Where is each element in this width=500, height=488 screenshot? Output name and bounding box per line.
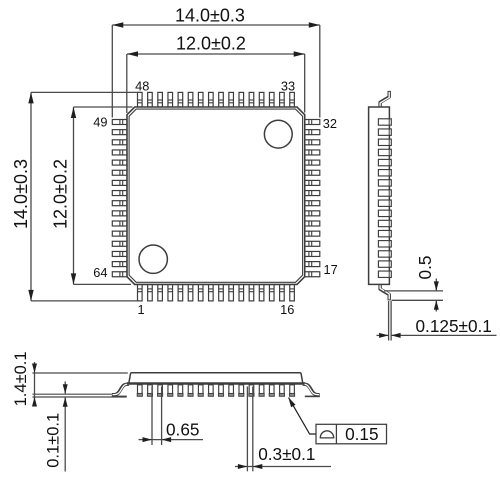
dimension 12.0±0.2 horizontal (body width) bbox=[127, 53, 305, 55]
svg-text:12.0±0.2: 12.0±0.2 bbox=[50, 159, 70, 229]
bottom pin row (pins 1-16) bbox=[138, 284, 143, 301]
bottom view left gull-wing lead bbox=[112, 384, 129, 395]
svg-text:48: 48 bbox=[135, 78, 149, 93]
svg-text:0.3±0.1: 0.3±0.1 bbox=[258, 444, 315, 464]
bottom view molded body bbox=[129, 373, 303, 384]
side view bottom gull-wing lead bbox=[380, 283, 389, 300]
dimension 1.4±0.1 (package height) bbox=[32, 372, 127, 374]
dimension 0.5 (lead foot length, side view) bbox=[384, 290, 443, 292]
dimension 12.0±0.2 vertical (body height) bbox=[73, 107, 75, 284]
bottom view right lead foot contact line bbox=[305, 395, 320, 397]
dimension 14.0±0.3 vertical (overall height) bbox=[30, 92, 32, 301]
bottom view left lead foot contact line bbox=[112, 395, 127, 397]
svg-text:1: 1 bbox=[137, 302, 144, 317]
svg-text:14.0±0.3: 14.0±0.3 bbox=[11, 159, 31, 229]
pin 33 index circle (top-right) bbox=[264, 120, 292, 148]
bottom view right gull-wing lead bbox=[303, 384, 320, 395]
coplanarity leader arrow bbox=[289, 398, 317, 434]
dimension 0.125±0.1 (lead thickness) bbox=[388, 301, 390, 341]
side view package body slab bbox=[369, 107, 390, 284]
svg-text:16: 16 bbox=[280, 302, 294, 317]
svg-text:17: 17 bbox=[324, 262, 338, 277]
bottom view lead exit band bbox=[127, 382, 305, 385]
svg-text:49: 49 bbox=[93, 115, 107, 130]
top pin row (pins 48-33) bbox=[138, 92, 143, 107]
dimension 0.1±0.1 (standoff) bbox=[32, 393, 111, 395]
side view top gull-wing lead bbox=[380, 91, 389, 109]
dimension 0.65 (lead pitch) bbox=[151, 387, 153, 446]
svg-text:33: 33 bbox=[281, 78, 295, 93]
svg-text:0.15: 0.15 bbox=[345, 424, 378, 444]
seating plane dome symbol bbox=[320, 431, 333, 438]
dimension 0.3±0.1 (lead width) bbox=[246, 387, 248, 472]
package body outer outline bbox=[127, 107, 305, 284]
svg-text:0.125±0.1: 0.125±0.1 bbox=[416, 316, 492, 336]
svg-text:14.0±0.3: 14.0±0.3 bbox=[175, 6, 245, 26]
svg-text:0.65: 0.65 bbox=[166, 420, 199, 440]
svg-text:32: 32 bbox=[323, 116, 337, 131]
pin 1 index circle (bottom-left) bbox=[139, 245, 167, 273]
dimension 14.0±0.3 horizontal (overall width) bbox=[112, 24, 319, 26]
coplanarity feature control frame 0.15 bbox=[316, 424, 387, 444]
package body inner outline bbox=[129, 109, 303, 282]
right pin column (pins 32-17) bbox=[305, 120, 320, 125]
svg-text:0.1±0.1: 0.1±0.1 bbox=[45, 413, 63, 468]
svg-text:12.0±0.2: 12.0±0.2 bbox=[176, 33, 246, 53]
svg-text:0.5: 0.5 bbox=[415, 256, 435, 280]
svg-text:1.4±0.1: 1.4±0.1 bbox=[12, 351, 30, 406]
left pin column (pins 49-64) bbox=[112, 120, 127, 125]
svg-text:64: 64 bbox=[93, 265, 107, 280]
